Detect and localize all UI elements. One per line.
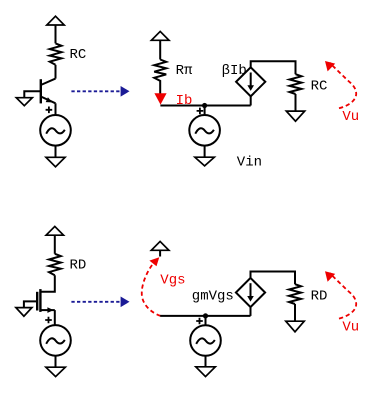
- wire drain node (bottom model): [251, 272, 296, 285]
- ground (gate, bottom-left): [16, 308, 32, 317]
- output voltage arrow Vu (red, top): [325, 61, 356, 108]
- wire RC to ground: [295, 94, 297, 111]
- voltage source (bottom model): [190, 316, 221, 356]
- ground (bottom model source): [196, 367, 216, 377]
- plus sign (bottom model source): [196, 318, 203, 325]
- svg-text:Rπ: Rπ: [176, 63, 193, 79]
- svg-text:Vu: Vu: [342, 320, 359, 336]
- resistor Rpi: [154, 60, 166, 94]
- ground (Vin): [195, 157, 214, 166]
- voltage source (bottom-left input): [40, 325, 71, 356]
- voltage source (top-left input): [40, 115, 71, 146]
- svg-text:βIb: βIb: [222, 63, 247, 79]
- arrow: circuit to model (bottom, blue dashed): [71, 297, 129, 308]
- VCC arrow (top-left circuit): [47, 16, 64, 43]
- gate terminal arrow (bottom model): [151, 241, 169, 256]
- wire base: [24, 91, 41, 97]
- wire input node (top model): [160, 105, 250, 107]
- junction dot (top model): [202, 103, 207, 108]
- plus sign (Vin): [197, 108, 204, 115]
- wire collector node (top model): [251, 61, 296, 74]
- svg-text:Ib: Ib: [176, 93, 193, 109]
- voltage source Vin: [189, 106, 220, 146]
- wire drain: [40, 275, 55, 292]
- svg-text:RD: RD: [311, 289, 328, 305]
- dependent current source betaIb: [236, 67, 265, 96]
- wire source to input source: [54, 310, 56, 325]
- ground (base, top-left): [16, 98, 32, 106]
- wire source to ground (bottom-left): [55, 356, 57, 368]
- wire emitter to source: [55, 103, 57, 115]
- VDD arrow (bottom-left circuit): [46, 226, 63, 253]
- transistor M1 (MOSFET): [37, 289, 40, 312]
- transistor Q1 (BJT): [41, 79, 56, 104]
- wire RD to ground: [294, 304, 296, 321]
- resistor RC2: [290, 74, 302, 94]
- wire gmVgs to input node: [250, 307, 252, 316]
- wire collector lead: [55, 65, 57, 79]
- resistor RD2: [289, 284, 301, 304]
- wire gate: [24, 301, 37, 307]
- wire to ground (bottom model source): [205, 356, 207, 367]
- source lead with arrow (MOSFET): [40, 307, 54, 313]
- junction dot (bottom model): [203, 313, 208, 318]
- svg-text:RD: RD: [70, 258, 87, 274]
- ground (RC): [286, 111, 304, 121]
- voltage arrow Vgs (red, dashed): [142, 257, 161, 316]
- svg-text:Vgs: Vgs: [160, 273, 185, 289]
- svg-text:gmVgs: gmVgs: [192, 289, 234, 305]
- wire Vin to ground: [204, 146, 206, 158]
- plus sign (bottom-left source): [45, 317, 52, 324]
- wire source to ground (top-left): [55, 146, 57, 158]
- ground (top-left source): [46, 157, 65, 167]
- resistor RD1: [49, 254, 61, 275]
- current arrow Ib (red): [154, 93, 166, 104]
- svg-text:RC: RC: [311, 79, 328, 95]
- svg-text:Vin: Vin: [237, 154, 262, 170]
- plus sign (top-left source): [46, 107, 53, 114]
- dependent current source gmVgs: [236, 278, 265, 307]
- ground (RD): [286, 321, 304, 332]
- output voltage arrow Vu (red, bottom): [325, 271, 356, 318]
- ground (bottom-left source): [46, 367, 65, 376]
- svg-text:RC: RC: [70, 47, 87, 63]
- svg-text:Vu: Vu: [342, 109, 359, 125]
- arrow: circuit to model (top, blue dashed): [71, 86, 129, 97]
- VCC arrow (top model): [151, 31, 169, 59]
- wire input node (bottom model): [160, 315, 250, 317]
- wire betaIb to input node: [250, 96, 252, 105]
- resistor RC1: [50, 43, 62, 64]
